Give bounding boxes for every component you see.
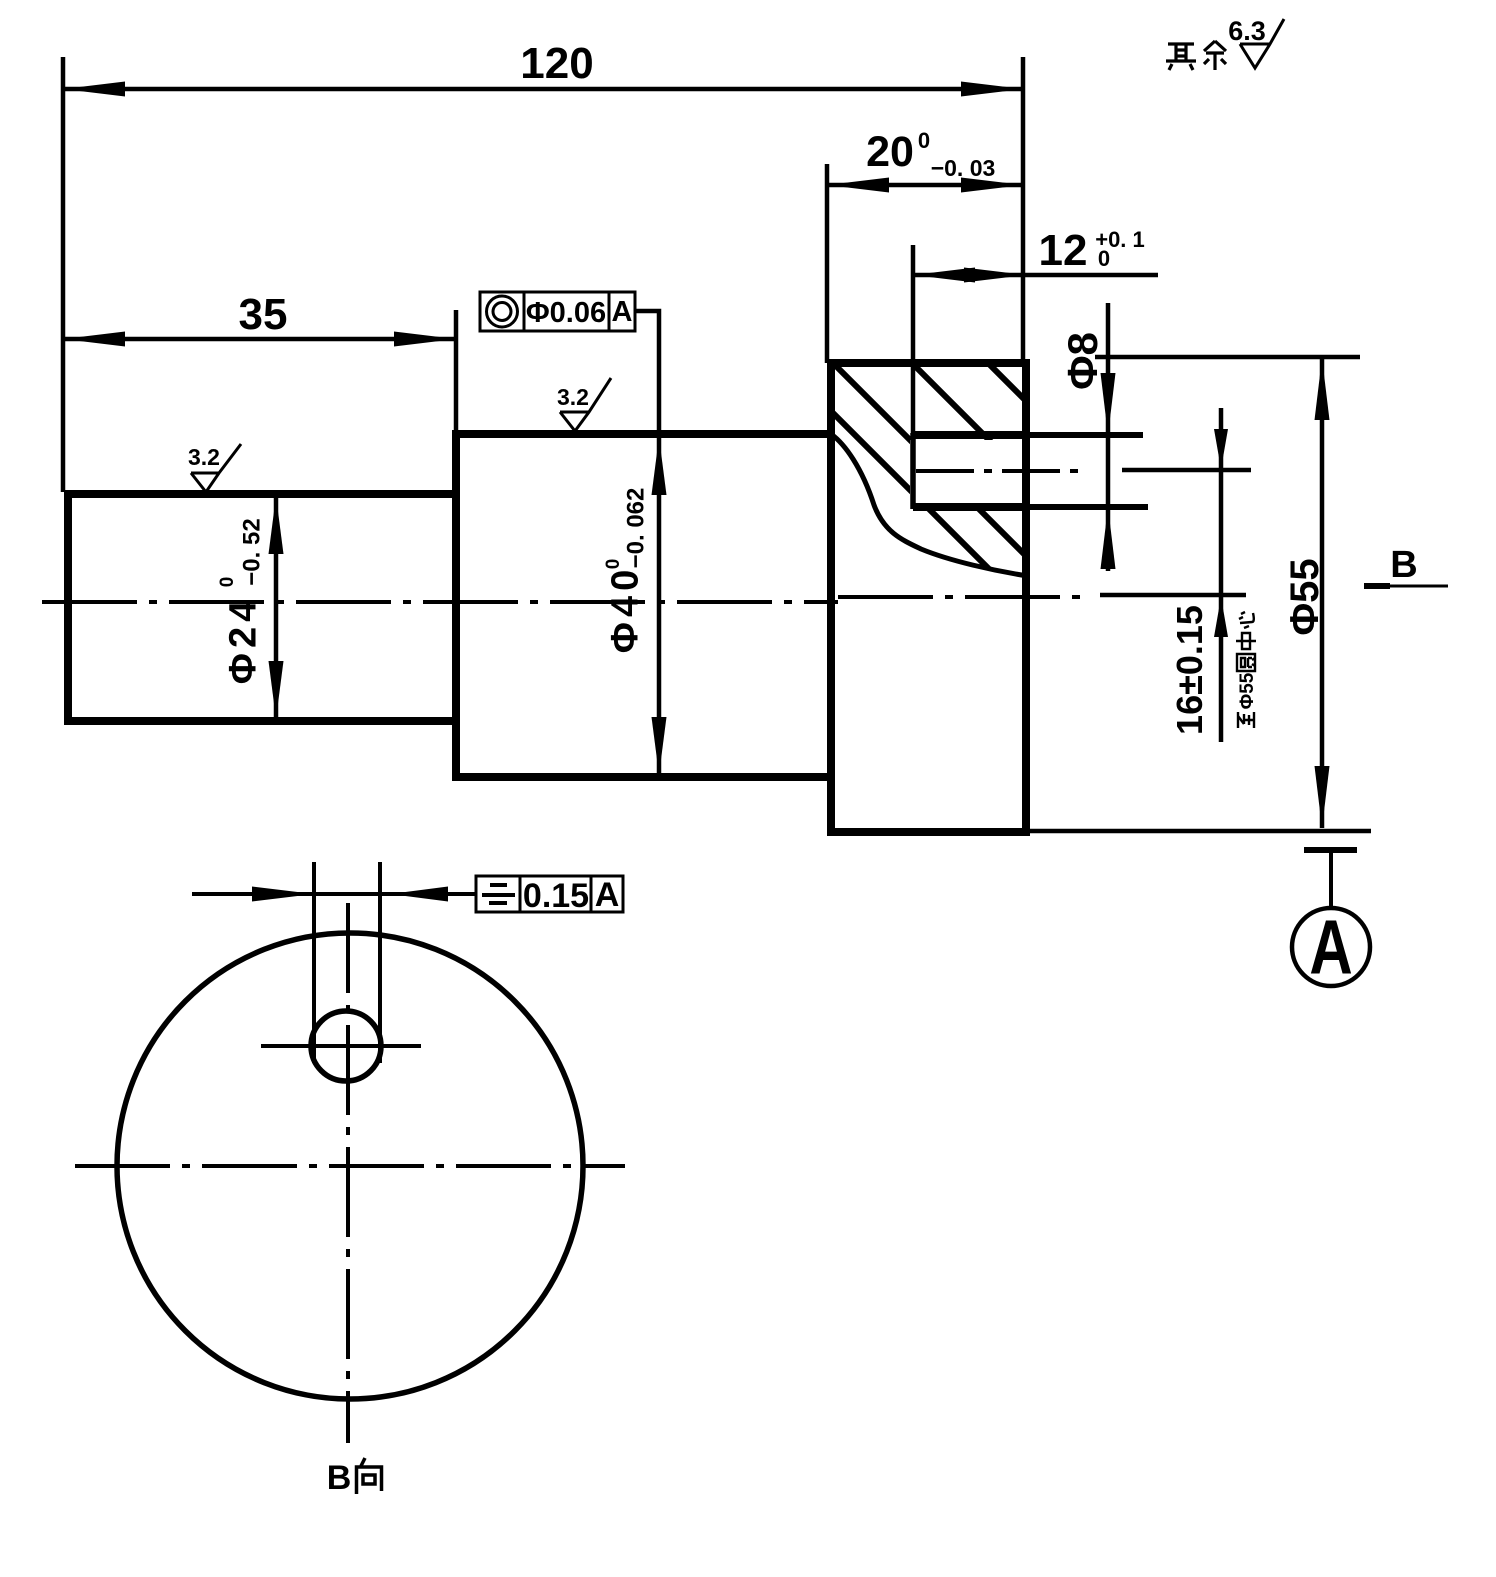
svg-text:Φ24: Φ24 [223, 596, 265, 684]
svg-text:−0. 52: −0. 52 [239, 518, 266, 585]
svg-text:B: B [327, 1459, 352, 1497]
svg-text:A: A [595, 876, 620, 914]
svg-text:20: 20 [866, 128, 914, 176]
svg-text:A: A [612, 296, 633, 328]
svg-text:3.2: 3.2 [557, 384, 589, 410]
svg-text:Φ55: Φ55 [1283, 558, 1327, 635]
svg-text:3.2: 3.2 [188, 444, 220, 470]
svg-text:B: B [1390, 544, 1417, 586]
svg-text:0: 0 [603, 559, 624, 570]
svg-text:Φ8: Φ8 [1059, 332, 1106, 390]
svg-text:−0. 03: −0. 03 [931, 155, 996, 181]
svg-text:16±0.15: 16±0.15 [1169, 605, 1210, 735]
svg-text:35: 35 [239, 290, 288, 339]
svg-text:Φ55: Φ55 [1237, 672, 1258, 709]
svg-text:0: 0 [918, 128, 930, 153]
svg-text:Φ0.06: Φ0.06 [526, 297, 606, 329]
svg-text:0: 0 [217, 577, 238, 588]
svg-text:−0. 062: −0. 062 [623, 488, 650, 569]
svg-text:Φ40: Φ40 [605, 565, 647, 653]
svg-text:0.15: 0.15 [523, 877, 589, 915]
svg-text:0: 0 [1098, 246, 1110, 271]
svg-text:6.3: 6.3 [1228, 16, 1266, 46]
svg-text:A: A [1309, 904, 1352, 990]
svg-text:12: 12 [1039, 226, 1088, 275]
svg-text:120: 120 [520, 39, 593, 88]
